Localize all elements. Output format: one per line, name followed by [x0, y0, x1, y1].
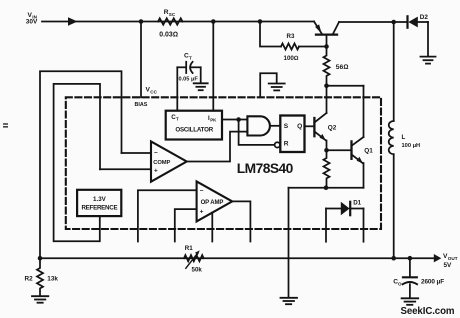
- svg-text:OUT: OUT: [448, 256, 458, 261]
- wire op-amp inverting input: [138, 190, 197, 241]
- svg-text:+: +: [154, 168, 158, 175]
- svg-text:BIAS: BIAS: [135, 102, 148, 108]
- resistor RSC: [158, 18, 183, 24]
- diode D2: [408, 16, 429, 56]
- svg-text:1.3V: 1.3V: [93, 196, 107, 203]
- node B (Ipk tap on rail): [211, 19, 216, 24]
- wire comp inverting input: [122, 152, 152, 154]
- wire bottom sense rail: [40, 257, 434, 259]
- SR latch U4 box: [280, 116, 304, 153]
- node I (resistor bottom): [324, 185, 329, 190]
- wire Q output: [305, 125, 314, 127]
- node E (collector node): [324, 83, 329, 88]
- transistor Q3 external PNP: [314, 22, 339, 47]
- IC boundary dashed box LM78S40: [66, 97, 381, 229]
- svg-text:Q: Q: [297, 123, 302, 130]
- node H (Q2 emitter / Q1 base): [324, 148, 329, 153]
- svg-text:Q2: Q2: [328, 124, 337, 131]
- wire R3 branch: [260, 22, 327, 47]
- capacitor Co: [403, 258, 417, 297]
- svg-text:PK: PK: [210, 117, 217, 122]
- ground (CT): [194, 83, 208, 90]
- svg-text:SeekIC.com: SeekIC.com: [401, 306, 455, 317]
- node D (pnp base node): [324, 44, 329, 49]
- svg-text:13k: 13k: [47, 275, 58, 282]
- node A (Vcc tap on rail): [139, 19, 144, 24]
- wire Q1 base: [327, 149, 351, 151]
- node J (R2 junction): [38, 256, 43, 261]
- wire comp non-inverting input: [100, 168, 151, 170]
- node Vout arrow: [434, 254, 442, 262]
- svg-text:OSCILLATOR: OSCILLATOR: [175, 126, 213, 133]
- svg-text:−: −: [200, 188, 204, 195]
- reference box 1.3V: [77, 190, 121, 216]
- wire op-amp output pin: [232, 201, 250, 241]
- svg-text:5V: 5V: [444, 262, 453, 269]
- svg-text:SC: SC: [169, 12, 176, 17]
- svg-text:T: T: [189, 55, 192, 60]
- AND gate U3: [247, 116, 270, 135]
- svg-text:Q1: Q1: [364, 148, 373, 155]
- wire inner reference loop (comp plus): [54, 84, 100, 241]
- svg-text:56Ω: 56Ω: [336, 64, 349, 71]
- svg-text:100Ω: 100Ω: [284, 55, 299, 62]
- svg-text:2600 μF: 2600 μF: [421, 279, 444, 286]
- svg-text:CC: CC: [150, 89, 157, 94]
- wire AND output to S: [270, 125, 280, 127]
- capacitor CT: [177, 62, 200, 111]
- ground (Co): [402, 298, 419, 305]
- wire Ipk line: [212, 22, 214, 111]
- svg-text:O: O: [398, 281, 402, 286]
- svg-text:0.05 μF: 0.05 μF: [179, 77, 199, 83]
- inductor L: [389, 22, 394, 258]
- ground (driver): [281, 298, 298, 304]
- wire comp output to AND: [187, 132, 248, 162]
- wire oscillator output: [222, 119, 247, 121]
- svg-text:T: T: [176, 117, 179, 122]
- ground (R2): [32, 296, 48, 303]
- svg-text:R2: R2: [25, 275, 34, 282]
- svg-text:REFERENCE: REFERENCE: [81, 205, 117, 212]
- artifact mark left edge: [3, 123, 8, 125]
- wire top rail right segment: [339, 21, 407, 23]
- wire top rail left segment: [42, 21, 314, 23]
- inverter bubble R input: [275, 142, 280, 147]
- transistor Q2: [314, 86, 326, 151]
- svg-text:S: S: [284, 123, 289, 130]
- node L (Co junction): [408, 256, 413, 261]
- node K (inductor junction): [391, 256, 396, 261]
- svg-text:R: R: [284, 141, 289, 148]
- node V_IN arrow: [68, 17, 78, 25]
- wire op-amp non-inverting input: [175, 209, 197, 241]
- svg-text:D2: D2: [420, 14, 429, 21]
- svg-text:30V: 30V: [26, 19, 38, 26]
- IC ground pin: [260, 73, 277, 97]
- svg-text:R3: R3: [287, 33, 295, 40]
- wire emitter bus: [289, 187, 364, 189]
- resistor R1 potentiometer: [184, 250, 204, 268]
- ground (IC pin): [269, 84, 285, 91]
- svg-text:D1: D1: [353, 200, 361, 207]
- svg-text:50k: 50k: [192, 266, 203, 273]
- resistor internal base-emitter: [324, 150, 330, 187]
- transistor Q1: [352, 86, 364, 188]
- wire outer feedback loop (comp minus): [40, 71, 122, 258]
- op-amp U5: [197, 181, 233, 221]
- wire collector bus: [327, 85, 364, 87]
- svg-text:0.03Ω: 0.03Ω: [159, 32, 178, 39]
- node F (diode/inductor tap on rail): [391, 20, 396, 25]
- svg-text:OP AMP: OP AMP: [201, 200, 224, 206]
- svg-text:COMP: COMP: [153, 160, 170, 166]
- resistor 56ohm: [324, 47, 330, 86]
- svg-text:100 μH: 100 μH: [402, 143, 421, 149]
- diode D1: [326, 202, 364, 242]
- svg-text:LM78S40: LM78S40: [237, 161, 294, 176]
- resistor R2: [37, 258, 43, 295]
- ground (D2): [421, 57, 436, 64]
- oscillator U2 box: [166, 111, 222, 140]
- node G (osc output junction): [236, 117, 241, 122]
- wire op-amp bottom pin: [211, 213, 213, 242]
- wire Vcc line: [140, 22, 142, 98]
- wire to internal ground: [288, 188, 290, 297]
- svg-text:+: +: [200, 208, 204, 215]
- svg-text:−: −: [154, 150, 158, 157]
- comparator U1: [151, 141, 187, 181]
- resistor R3: [281, 44, 299, 50]
- svg-text:L: L: [402, 134, 406, 141]
- node C (R3 tap on rail): [258, 19, 263, 24]
- svg-text:R1: R1: [185, 245, 193, 252]
- wire to R input: [239, 120, 275, 145]
